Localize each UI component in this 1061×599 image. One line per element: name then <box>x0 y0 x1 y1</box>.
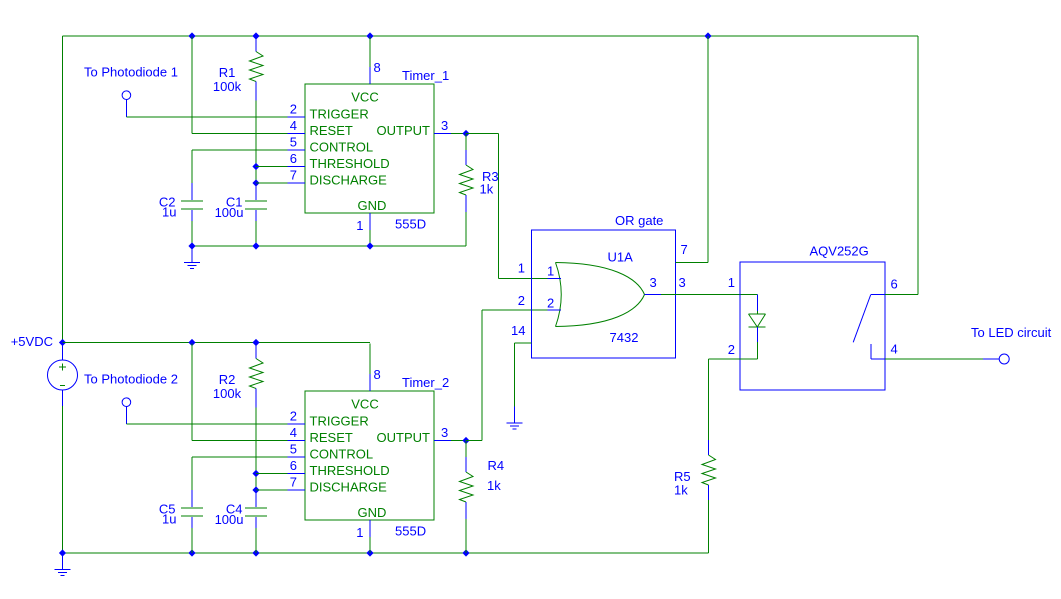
wire: C4 bottom to ground rail <box>255 528 257 553</box>
svg-text:Timer_2: Timer_2 <box>402 375 449 390</box>
wire: output node Timer_2 down to R4 <box>465 441 467 458</box>
resistor R4 zigzag body <box>460 472 474 502</box>
capacitor C2 plates <box>181 201 203 209</box>
terminal pin To Photodiode 1 <box>125 100 127 118</box>
IC Timer_2 555 body box <box>305 391 434 520</box>
node: DISCHARGE tap Timer_2 <box>252 486 259 493</box>
svg-text:CONTROL: CONTROL <box>310 140 374 155</box>
node: ground rail / source <box>59 549 66 556</box>
resistor R1 top pin <box>255 37 257 52</box>
wire: pin 1 Timer_1 to ground rail <box>369 230 371 246</box>
svg-text:8: 8 <box>374 367 381 382</box>
capacitor C5 bottom pin <box>191 517 193 528</box>
voltage source V1 pin bottom <box>62 390 64 406</box>
wire: C1 bottom to ground rail <box>255 221 257 246</box>
svg-text:100u: 100u <box>215 205 244 220</box>
wire: AQV pin 4 to LED circuit terminal <box>885 358 983 360</box>
wire: left +5V vertical bus <box>62 36 64 343</box>
wire: AQV pin 6 to right vertical <box>885 294 918 296</box>
voltage source V1 plus mark <box>59 364 66 371</box>
capacitor C2 bottom pin <box>191 210 193 221</box>
wire: R5 bottom to ground rail <box>708 500 710 553</box>
Timer_1 pin 1 stub <box>369 213 371 230</box>
svg-text:To Photodiode 1: To Photodiode 1 <box>84 65 178 80</box>
wire: horizontal into OR gate input 1 <box>499 277 548 279</box>
voltage source V1 minus mark <box>60 385 65 387</box>
resistor R3 top pin <box>465 150 467 165</box>
Timer_2 pin 5 stub <box>288 456 306 458</box>
svg-text:14: 14 <box>511 323 525 338</box>
svg-text:7432: 7432 <box>610 330 639 345</box>
svg-text:THRESHOLD: THRESHOLD <box>310 156 390 171</box>
wire: LED cathode to pin 2 edge <box>740 358 758 360</box>
node: ground rail / Timer_2 GND pin 1 <box>366 549 373 556</box>
wire: horizontal into OR gate input 2 <box>482 309 548 311</box>
svg-text:R2: R2 <box>219 372 236 387</box>
LED D1 anode pin <box>757 295 759 312</box>
Timer_1 pin 4 stub <box>288 133 306 135</box>
capacitor C5 top pin <box>191 490 193 507</box>
U1A pin 1 stub <box>548 277 562 279</box>
resistor R5 top pin <box>708 440 710 455</box>
wire: C5 bottom to ground rail <box>191 528 193 553</box>
capacitor C4 bottom pin <box>255 517 257 528</box>
wire: bottom ground rail <box>63 552 709 554</box>
svg-text:VCC: VCC <box>351 90 378 105</box>
wire: +5V rail 2 to Timer_2 <box>63 342 371 344</box>
node: rail1 / Timer_1 GND pin 1 <box>366 242 373 249</box>
svg-text:DISCHARGE: DISCHARGE <box>310 480 388 495</box>
wire: THRESHOLD tap to pin 6 Timer_2 <box>256 473 288 475</box>
svg-text:2: 2 <box>518 293 525 308</box>
wire: vertical from pin 7 up to top rail <box>707 36 709 263</box>
svg-text:CONTROL: CONTROL <box>310 447 374 462</box>
svg-text:1u: 1u <box>162 512 176 527</box>
capacitor C1 plates <box>245 201 267 209</box>
ground symbol bottom-left <box>55 553 71 576</box>
svg-text:5: 5 <box>290 135 297 150</box>
wire: To Photodiode 1 to TRIGGER pin 2 of Timer_1 <box>126 116 287 118</box>
relay switch contact hook vertical <box>870 344 872 359</box>
svg-text:100u: 100u <box>215 512 244 527</box>
wire: pin 1 Timer_2 to ground rail <box>369 537 371 553</box>
wire: To Photodiode 2 to TRIGGER pin 2 of Timer_2 <box>126 423 287 425</box>
svg-text:U1A: U1A <box>608 250 634 265</box>
svg-text:1: 1 <box>356 525 363 540</box>
wire: C2 bottom to ground rail <box>191 221 193 246</box>
voltage source V1 +5VDC pin top <box>62 343 64 361</box>
relay switch lever <box>853 295 871 343</box>
node: rail2 / R2 top <box>252 339 259 346</box>
IC AQV252G body box <box>740 262 885 390</box>
node: THRESHOLD tap Timer_1 <box>252 163 259 170</box>
svg-text:Timer_1: Timer_1 <box>402 68 449 83</box>
capacitor C4 top pin <box>255 490 257 507</box>
svg-text:OR gate: OR gate <box>615 213 663 228</box>
svg-text:8: 8 <box>374 60 381 75</box>
Timer_1 pin 3 OUTPUT stub <box>434 133 451 135</box>
terminal circle To Photodiode 2 <box>122 398 131 407</box>
svg-text:6: 6 <box>290 458 297 473</box>
Timer_1 pin 6 stub <box>288 166 306 168</box>
svg-text:DISCHARGE: DISCHARGE <box>310 173 388 188</box>
node: THRESHOLD tap Timer_2 <box>252 470 259 477</box>
svg-text:2: 2 <box>728 342 735 357</box>
svg-text:1: 1 <box>518 261 525 276</box>
OR gate shape bottom curve <box>556 295 645 327</box>
svg-text:OUTPUT: OUTPUT <box>377 123 431 138</box>
U1A pin 7 stub <box>676 262 709 264</box>
svg-text:2: 2 <box>547 296 554 311</box>
wire: OR output pin 3 to AQV252G pin 1 <box>661 294 758 296</box>
svg-text:4: 4 <box>290 118 297 133</box>
node: ground rail / C5 <box>188 549 195 556</box>
terminal circle To Photodiode 1 <box>122 91 131 100</box>
Timer_1 pin 8 stub <box>369 67 371 84</box>
OR gate shape left arc <box>556 263 562 327</box>
IC Timer_1 555 body box <box>305 84 434 213</box>
svg-text:GND: GND <box>358 198 387 213</box>
resistor R2 bottom pin <box>255 389 257 408</box>
Timer_2 pin 7 stub <box>288 489 306 491</box>
svg-text:TRIGGER: TRIGGER <box>310 107 369 122</box>
LED D1 triangle <box>749 314 766 327</box>
svg-text:4: 4 <box>891 342 898 357</box>
U1A pin 14 stub <box>515 342 532 344</box>
wire: Timer_2 output vertical up to OR input 2 <box>481 310 483 441</box>
resistor R4 top pin <box>465 457 467 472</box>
wire: +5V rail down to RESET Timer_1 <box>191 37 193 134</box>
svg-text:4: 4 <box>290 425 297 440</box>
wire: DISCHARGE tap to pin 7 Timer_1 <box>256 182 288 184</box>
wire: Timer_2 output right segment <box>466 440 482 442</box>
relay switch fixed lead pin 6 side <box>871 294 885 296</box>
Timer_1 pin 5 stub <box>288 149 306 151</box>
Timer_2 pin 8 stub <box>369 374 371 391</box>
wire: LED cathode down <box>757 342 759 359</box>
svg-text:100k: 100k <box>213 79 242 94</box>
svg-text:3: 3 <box>650 275 657 290</box>
svg-text:R4: R4 <box>488 458 505 473</box>
svg-text:1k: 1k <box>487 478 501 493</box>
Timer_1 pin 7 stub <box>288 182 306 184</box>
terminal pin To LED circuit <box>983 358 999 360</box>
Timer_2 pin 6 stub <box>288 473 306 475</box>
capacitor C2 top pin <box>191 183 193 200</box>
resistor R5 bottom pin <box>708 485 710 500</box>
svg-text:OUTPUT: OUTPUT <box>377 430 431 445</box>
wire: R2 bottom to THRESHOLD/DISCHARGE/C4 column <box>255 408 257 491</box>
wire: R1 bottom to THRESHOLD/DISCHARGE/C1 column <box>255 101 257 184</box>
svg-text:1k: 1k <box>674 483 688 498</box>
wire: pin 14 down to ground <box>514 343 516 407</box>
node: output junction Timer_2 <box>462 437 469 444</box>
wire: RESET horizontal to pin 4 Timer_2 <box>192 440 288 442</box>
node: top rail / RESET branch Timer_1 <box>188 32 195 39</box>
svg-text:3: 3 <box>441 118 448 133</box>
wire: pin 3 Timer_1 to output node <box>451 133 466 135</box>
node: ground rail / R4 bottom <box>462 549 469 556</box>
wire: CONTROL vertical down to C5 <box>191 457 193 490</box>
wire: right vertical from top rail to AQV pin 6 <box>917 36 919 295</box>
voltage source V1 circle <box>48 360 78 390</box>
svg-text:To Photodiode 2: To Photodiode 2 <box>84 372 178 387</box>
svg-text:THRESHOLD: THRESHOLD <box>310 463 390 478</box>
Timer_2 pin 1 stub <box>369 520 371 537</box>
resistor R2 top pin <box>255 344 257 359</box>
wire: R3 bottom to local ground rail <box>465 212 467 246</box>
svg-text:1: 1 <box>356 218 363 233</box>
svg-text:1u: 1u <box>162 205 176 220</box>
svg-text:1: 1 <box>547 264 554 279</box>
svg-text:1k: 1k <box>480 182 494 197</box>
resistor R1 bottom pin <box>255 82 257 101</box>
node: top rail / R1 top <box>252 32 259 39</box>
node: top rail / Timer_1 pin 8 <box>366 32 373 39</box>
LED D1 cathode pin <box>757 327 759 342</box>
node: DISCHARGE tap Timer_1 <box>252 179 259 186</box>
IC U1A 7432 body box <box>532 230 676 358</box>
svg-text:2: 2 <box>290 409 297 424</box>
wire: source bottom to ground rail <box>62 406 64 553</box>
Timer_2 pin 2 stub <box>288 423 306 425</box>
node: rail1 / C1 <box>252 242 259 249</box>
Timer_2 pin 3 OUTPUT stub <box>434 440 451 442</box>
terminal pin To Photodiode 2 <box>125 407 127 425</box>
node: output junction Timer_1 <box>462 130 469 137</box>
wire: R4 bottom to ground rail <box>465 519 467 553</box>
svg-text:6: 6 <box>891 277 898 292</box>
svg-text:To LED circuit: To LED circuit <box>971 325 1052 340</box>
capacitor C5 plates <box>181 508 203 516</box>
svg-text:555D: 555D <box>395 217 426 232</box>
OR gate shape top curve <box>556 263 645 295</box>
svg-text:555D: 555D <box>395 524 426 539</box>
U1A pin 2 stub <box>548 309 562 311</box>
Timer_2 pin 4 stub <box>288 440 306 442</box>
wire: top +5V rail <box>63 35 919 37</box>
resistor R4 bottom pin <box>465 502 467 519</box>
resistor R2 zigzag body <box>250 359 264 389</box>
terminal circle To LED circuit <box>999 354 1009 364</box>
capacitor C4 plates <box>245 508 267 516</box>
svg-text:100k: 100k <box>213 386 242 401</box>
svg-text:5: 5 <box>290 442 297 457</box>
svg-text:2: 2 <box>290 102 297 117</box>
wire: CONTROL pin 5 Timer_2 to C5 <box>192 456 288 458</box>
capacitor C1 bottom pin <box>255 210 257 221</box>
svg-text:3: 3 <box>441 425 448 440</box>
LED D1 cathode bar <box>749 326 766 328</box>
resistor R1 zigzag body <box>250 52 264 82</box>
wire: CONTROL vertical down to C2 <box>191 150 193 183</box>
svg-text:AQV252G: AQV252G <box>810 244 869 259</box>
wire: rail to pin 8 Timer_2 <box>369 344 371 375</box>
node: rail2 / RESET branch Timer_2 <box>188 339 195 346</box>
wire: CONTROL pin 5 Timer_1 to C2 <box>192 149 288 151</box>
capacitor C1 top pin <box>255 183 257 200</box>
resistor R3 zigzag body <box>460 165 474 195</box>
svg-text:6: 6 <box>290 151 297 166</box>
wire: +5V rail down to RESET Timer_2 <box>191 344 193 441</box>
svg-text:7: 7 <box>290 168 297 183</box>
resistor R3 bottom pin <box>465 195 467 212</box>
wire: DISCHARGE tap to pin 7 Timer_2 <box>256 489 288 491</box>
ground symbol Timer_1 circuit <box>184 246 200 269</box>
svg-text:7: 7 <box>290 475 297 490</box>
wire: output node Timer_1 down to R3 <box>465 134 467 151</box>
LED D1 anode link <box>757 311 759 314</box>
wire: Timer_1 output vertical down to OR input 1 <box>498 134 500 279</box>
svg-text:RESET: RESET <box>310 123 353 138</box>
svg-text:1: 1 <box>728 275 735 290</box>
wire: pin 3 Timer_2 to output node <box>451 440 466 442</box>
wire: THRESHOLD tap to pin 6 Timer_1 <box>256 166 288 168</box>
svg-text:TRIGGER: TRIGGER <box>310 414 369 429</box>
node: rail1 / C2 + ground <box>188 242 195 249</box>
ground symbol OR gate <box>507 407 523 430</box>
relay switch contact lead pin 4 side <box>871 358 885 360</box>
wire: AQV pin 2 to R5 column <box>709 358 741 360</box>
wire: vertical down to R5 <box>708 359 710 440</box>
node: +5VDC source junction <box>59 339 66 346</box>
wire: rail to pin 8 Timer_1 <box>369 37 371 68</box>
wire: RESET horizontal to pin 4 Timer_1 <box>192 133 288 135</box>
resistor R5 zigzag body <box>702 455 716 485</box>
svg-text:RESET: RESET <box>310 430 353 445</box>
node: ground rail / C4 <box>252 549 259 556</box>
svg-text:R1: R1 <box>219 65 236 80</box>
svg-text:GND: GND <box>358 505 387 520</box>
node: top rail / OR gate pin 7 branch <box>704 32 711 39</box>
U1A pin 3 stub <box>645 294 662 296</box>
svg-text:3: 3 <box>679 275 686 290</box>
wire: Timer_1 output right segment <box>466 133 499 135</box>
svg-text:7: 7 <box>681 242 688 257</box>
Timer_1 pin 2 stub <box>288 116 306 118</box>
svg-text:VCC: VCC <box>351 397 378 412</box>
svg-text:+5VDC: +5VDC <box>11 334 53 349</box>
wire: Timer_1 local ground rail <box>192 245 466 247</box>
